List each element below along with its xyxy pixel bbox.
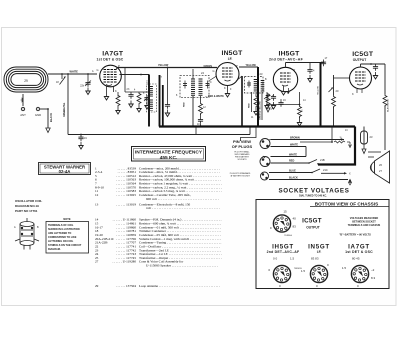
svg-text:BLUE: BLUE (289, 170, 296, 173)
svg-text:IA7GT: IA7GT (102, 51, 124, 58)
wire volume control wiper to U4 grid (334, 77, 350, 79)
arrow pin U3 (287, 88, 290, 94)
svg-text:83 83: 83 83 (311, 257, 319, 261)
tube U4 IC5GT (350, 67, 372, 96)
thick wire vertical at x149 (148, 75, 150, 127)
svg-text:DIAL TUNED TO 540 KC.: DIAL TUNED TO 540 KC. (299, 195, 327, 198)
svg-text:G: G (97, 68, 99, 72)
capacitor + resistor cluster C5 R5 left of osc coil (125, 68, 148, 112)
svg-text:SOCKETS: SOCKETS (237, 159, 247, 161)
wire red vertical under IFT1 (184, 102, 186, 107)
resistor R14 on right rail (383, 64, 390, 150)
svg-text:2nd DET–AVC–AF: 2nd DET–AVC–AF (269, 58, 304, 62)
thick wire vertical at x242 (236, 76, 242, 127)
thick wire vertical at x163 (162, 85, 164, 127)
capacitor 16 on AVC line (278, 99, 286, 107)
svg-text:BLACK: BLACK (49, 113, 53, 122)
oscillator coil 22 (146, 80, 157, 113)
thick bottom bus B- (159, 125, 355, 127)
resistor 15 with ground right of U3 (297, 92, 303, 126)
thin bottom wire (A-) (68, 127, 250, 135)
svg-text:"B"–BATTERY = 90 VOLTS: "B"–BATTERY = 90 VOLTS (339, 234, 371, 237)
wire green-yellow vertical text under IFT2 (260, 92, 263, 120)
label 1A7GT socket (345, 244, 373, 254)
plug P3 (261, 172, 269, 180)
svg-text:YELLOW: YELLOW (317, 86, 319, 95)
volume control 20 (329, 75, 339, 127)
svg-text:8.3: 8.3 (371, 276, 376, 280)
wire yellow bus from U1 plate to 1N5GT (116, 64, 218, 70)
label IN5GT socket (308, 244, 330, 254)
svg-text:Loop Antenna . . . . . . . . .: Loop Antenna . . . . . . . . . . . . . .… (139, 284, 220, 288)
svg-text:. . . . . . 113025: . . . . . . 113025 (116, 193, 136, 197)
wire U1 screen to thick node (120, 74, 150, 76)
svg-text:29: 29 (24, 79, 28, 83)
svg-text:GREEN: GREEN (204, 65, 213, 68)
plug P1 (260, 139, 272, 149)
svg-text:ARE LETTERED TO: ARE LETTERED TO (48, 232, 71, 235)
title SOCKET VOLTAGES (278, 187, 349, 197)
text oscillator coil caption (15, 199, 42, 213)
svg-text:G: G (213, 69, 215, 73)
label 1H5GT socket (267, 244, 300, 254)
wire loop bottom to ANT terminal (22, 94, 24, 106)
svg-text:1.5: 1.5 (301, 269, 306, 273)
wire red-white label under IFT1 (205, 95, 224, 98)
oscillator coil illustration (14, 218, 39, 250)
svg-text:LETTERING ON COIL: LETTERING ON COIL (48, 240, 74, 243)
svg-text:TERMINALS OF COIL: TERMINALS OF COIL (48, 224, 74, 227)
svg-text:29: 29 (95, 284, 99, 288)
wire white upper (271, 144, 307, 157)
svg-text:0 0: 0 0 (273, 257, 278, 261)
label IN5GT (221, 50, 243, 61)
svg-text:YELLOW: YELLOW (246, 64, 257, 67)
svg-text:. . . . . . 113019: . . . . . . 113019 (116, 202, 136, 206)
svg-text:GREEN&YEL: GREEN&YEL (64, 102, 66, 117)
svg-text:GND: GND (35, 113, 41, 117)
svg-text:OSCILLATOR COIL: OSCILLATOR COIL (15, 199, 42, 203)
wire junction B resistor (300, 127, 352, 148)
wire red vertical under IFT2 (249, 92, 252, 112)
svg-text:RED: RED (249, 103, 251, 108)
ground stub under tube U1 (104, 93, 108, 100)
svg-text:455 KC.: 455 KC. (160, 155, 178, 161)
svg-text:RED: RED (184, 102, 186, 107)
svg-text:NOTE: NOTE (63, 217, 70, 221)
svg-text:27: 27 (95, 260, 99, 264)
svg-text:I.F.: I.F. (228, 57, 233, 61)
svg-text:SOCKET VOLTAGES: SOCKET VOLTAGES (278, 187, 349, 194)
svg-text:. . . . . . 137504: . . . . . . 137504 (116, 284, 136, 288)
svg-text:40: 40 (293, 217, 297, 221)
svg-text:OUTPUT: OUTPUT (353, 58, 367, 62)
plug P2 (260, 156, 270, 167)
svg-text:TERM A: TERM A (284, 234, 292, 237)
wire U3 plate to top bus (286, 63, 324, 68)
box socket voltages (256, 200, 389, 289)
wire blue with switch 21C (269, 168, 351, 176)
svg-text:–2: –2 (371, 268, 375, 272)
thick wire vertical at x321 (317, 63, 320, 127)
label IC5GT socket (302, 218, 322, 230)
wire AVC line under U3 (266, 104, 300, 111)
wire yellow from U2 plate (239, 64, 258, 67)
box NOTE (46, 217, 89, 253)
tube U1 1A7GT (97, 64, 122, 93)
terminal GND (35, 107, 41, 117)
svg-text:13: 13 (95, 202, 99, 206)
capacitor C19 on A- line (78, 134, 87, 149)
svg-text:1st DET & OSC: 1st DET & OSC (97, 58, 124, 62)
parts list (95, 166, 222, 288)
IF transformer 24 (1st IF) (180, 69, 217, 98)
svg-text:15: 15 (283, 210, 287, 214)
ground under U3 cathode (281, 86, 285, 95)
wire green-yellow vertical from antenna junction (64, 74, 68, 135)
svg-text:U-115083 Speaker . . . . . . .: U-115083 Speaker . . . . . . . . . . . .… (146, 264, 218, 268)
svg-text:DIAGRAM.: DIAGRAM. (48, 248, 61, 251)
svg-text:— RED & WHITE: — RED & WHITE (205, 95, 224, 98)
svg-text:TERMINALS AND CHASSIS: TERMINALS AND CHASSIS (348, 224, 381, 227)
svg-text:P: P (294, 68, 296, 72)
svg-text:21A: 21A (269, 108, 274, 111)
svg-text:. . . . . . U-119280: . . . . . . U-119280 (113, 260, 137, 264)
svg-text:I.F.: I.F. (317, 250, 322, 254)
svg-text:BOTTOM VIEW OF CHASSIS: BOTTOM VIEW OF CHASSIS (315, 202, 378, 207)
thick wire vertical node at x159 (159, 75, 161, 127)
svg-text:GREEN&YELLOW: GREEN&YELLOW (260, 100, 262, 120)
text PIN VIEW OF PLUGS (230, 139, 253, 178)
svg-text:BLACK&RED: BLACK&RED (387, 98, 390, 112)
coil secondary stub with ground (264, 92, 274, 109)
capacitor 17 (321, 57, 328, 66)
socket S1 IC5GT (270, 210, 296, 238)
wire U4 plate to B+ rail (361, 63, 386, 67)
box INTERMEDIATE FREQUENCY 455 KC (132, 147, 206, 162)
svg-text:IN5GT: IN5GT (221, 50, 243, 57)
wire white from loop to 1A7GT grid (48, 70, 97, 75)
svg-text:600 volt . . . . . . . . . . .: 600 volt . . . . . . . . . . . . . . . .… (146, 197, 219, 201)
wire battery plug feed (241, 127, 257, 142)
svg-text:21C: 21C (323, 168, 328, 172)
svg-text:CORRESPOND TO LIKE: CORRESPOND TO LIKE (48, 236, 77, 239)
svg-text:K: K (115, 89, 117, 93)
svg-text:WHITE: WHITE (289, 154, 297, 157)
box STEWART WARNER 02-4A (39, 163, 91, 175)
wire black from GND terminal (40, 108, 53, 132)
svg-text:P: P (236, 64, 238, 68)
svg-text:DIAGRAM NO.19: DIAGRAM NO.19 (15, 204, 39, 208)
capacitor C12 cluster below IFT2 right (271, 94, 276, 109)
capacitor C2 22k with ground (80, 73, 91, 94)
wire black (269, 177, 352, 186)
terminal ANT (20, 107, 26, 117)
svg-text:"A" BATTERY SOCKET: "A" BATTERY SOCKET (230, 175, 251, 178)
svg-text:WHITE: WHITE (290, 144, 298, 147)
tiny component number labels (92, 70, 348, 132)
svg-text:K: K (352, 92, 354, 96)
capacitor C8 with ground right of osc coil (165, 68, 170, 117)
svg-text:80 45: 80 45 (352, 257, 360, 261)
thick wire vertical at x258 (257, 67, 259, 127)
resistor 12 under IFT1 (198, 102, 206, 124)
svg-text:SYMBOLS ON THE CIRCUIT: SYMBOLS ON THE CIRCUIT (48, 244, 82, 247)
wire brown (271, 137, 344, 141)
svg-text:INTERMEDIATE FREQUENCY: INTERMEDIATE FREQUENCY (135, 150, 203, 156)
svg-text:2nd DET–AVC–AF: 2nd DET–AVC–AF (267, 250, 300, 254)
socket S2 1H5GT (268, 257, 302, 289)
svg-text:OUTPUT: OUTPUT (306, 225, 320, 229)
svg-text:21B: 21B (320, 158, 325, 162)
svg-text:BLACK: BLACK (289, 177, 298, 180)
socket S4 1A7GT (342, 257, 376, 289)
svg-text:PART NO 17761: PART NO 17761 (15, 209, 38, 213)
svg-text:IC5GT: IC5GT (352, 51, 374, 58)
trimmer capacitor C7 (144, 95, 150, 109)
trimmer 18 on antenna wire (56, 74, 66, 85)
loop antenna 29 (4, 67, 48, 92)
svg-text:ANT: ANT (20, 113, 26, 117)
svg-text:83: 83 (293, 225, 297, 229)
svg-text:BROWN: BROWN (290, 137, 300, 140)
label IC5GT (352, 51, 374, 62)
resistor R9 with arrow below IFT2 (266, 93, 270, 112)
resistor R8 under IFT2 (254, 92, 258, 115)
wire from IFT1 secondary down (193, 96, 201, 127)
svg-text:RED: RED (289, 160, 294, 163)
wire white lower (271, 154, 307, 157)
svg-text:IC5GT: IC5GT (302, 218, 322, 225)
svg-text:OF PLUGS: OF PLUGS (232, 144, 253, 149)
IF transformer 23 (2nd IF) (245, 72, 264, 93)
svg-text:1.5: 1.5 (342, 266, 347, 270)
thick bus right corner to output (318, 127, 355, 165)
svg-text:1.5: 1.5 (290, 257, 295, 261)
speaker 26 27 (368, 151, 390, 183)
tube U2 1N5GT (213, 63, 240, 98)
resistor R under tube U1 (116, 92, 120, 114)
svg-text:1st DET & OSC: 1st DET & OSC (345, 250, 373, 254)
capacitor 14 with ground (305, 63, 315, 83)
label IA7GT (97, 51, 124, 62)
svg-text:volt . . . . . . . . . . . . .: volt . . . . . . . . . . . . . . . . . .… (146, 206, 220, 210)
svg-text:12: 12 (95, 193, 99, 197)
svg-text:02-4A: 02-4A (59, 169, 71, 174)
svg-text:SHOWN IN ILLUSTRATION: SHOWN IN ILLUSTRATION (48, 228, 80, 231)
wire red with switch 21B (271, 158, 325, 165)
label IH5GT (269, 50, 304, 61)
svg-text:WHITE: WHITE (70, 70, 79, 74)
svg-text:IH5GT: IH5GT (278, 50, 300, 57)
socket S3 IN5GT (301, 257, 329, 289)
tube U3 1H5GT (273, 67, 297, 95)
capacitor C16 with ground near U4 (373, 64, 378, 79)
svg-text:K: K (224, 86, 226, 90)
output transformer 23 (361, 127, 373, 154)
